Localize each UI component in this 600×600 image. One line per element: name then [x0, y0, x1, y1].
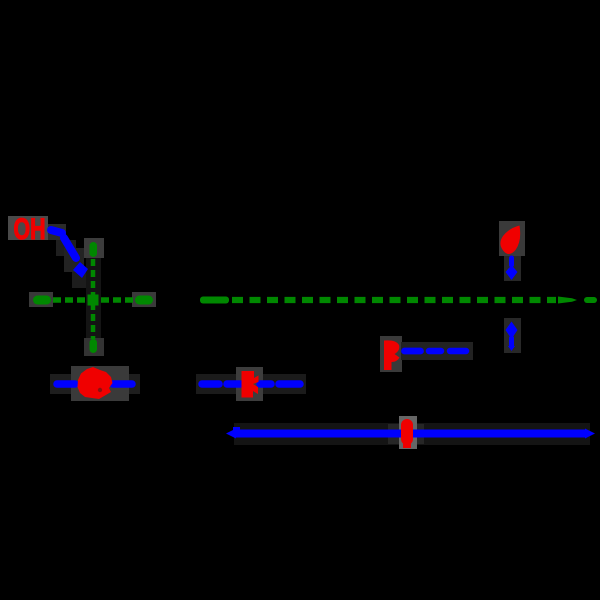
svg-text:OH: OH — [14, 213, 46, 246]
